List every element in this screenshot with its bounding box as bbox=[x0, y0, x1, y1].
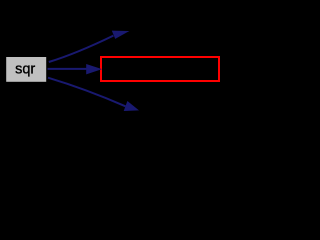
node (red, current) bbox=[101, 57, 219, 81]
edge sqr -> top node bbox=[49, 31, 130, 62]
node sqr bbox=[6, 57, 46, 82]
svg-text:sqr: sqr bbox=[15, 62, 35, 78]
edge sqr -> bottom node bbox=[48, 78, 139, 111]
edge sqr -> middle (red node) bbox=[48, 64, 103, 74]
